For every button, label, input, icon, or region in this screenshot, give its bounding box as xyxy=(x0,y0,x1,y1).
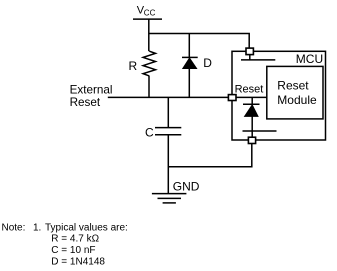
MCU box xyxy=(232,51,326,140)
svg-text:Module: Module xyxy=(277,93,317,107)
wire Vcc stem down to resistor top xyxy=(148,19,150,51)
svg-text:External: External xyxy=(70,84,113,97)
pin square GND (bottom of MCU) xyxy=(248,137,255,143)
wire top rail from resistor branch to MCU Vcc pin xyxy=(149,34,249,49)
note text xyxy=(2,222,128,267)
pin square Reset (left of MCU) xyxy=(228,95,236,101)
wire node A down to capacitor top xyxy=(167,97,169,127)
wire ground rail to MCU GND pin xyxy=(168,144,252,167)
wire MCU reset pin to Reset Module xyxy=(236,96,267,98)
capacitor C top plate xyxy=(155,127,181,129)
pin square Vcc (top of MCU) xyxy=(246,48,253,55)
svg-text:R = 4.7 kΩ: R = 4.7 kΩ xyxy=(51,234,99,245)
internal diode cathode bar xyxy=(243,103,260,105)
internal diode triangle xyxy=(245,105,258,117)
svg-text:Note:: Note: xyxy=(2,222,26,233)
svg-text:Typical values are:: Typical values are: xyxy=(45,222,128,233)
label Vcc xyxy=(137,4,156,17)
svg-text:MCU: MCU xyxy=(296,52,323,66)
svg-text:GND: GND xyxy=(173,180,200,194)
svg-text:D = 1N4148: D = 1N4148 xyxy=(51,256,105,267)
diode D cathode bar xyxy=(182,56,198,58)
wire diode D anode to node A xyxy=(188,68,190,98)
wire rail to diode D cathode xyxy=(188,34,190,58)
svg-text:Reset: Reset xyxy=(235,84,264,96)
svg-text:CC: CC xyxy=(144,9,156,18)
internal Vcc rail bar xyxy=(241,59,275,61)
svg-text:Reset: Reset xyxy=(277,79,309,93)
svg-text:Reset: Reset xyxy=(70,96,101,109)
wire External Reset node A to MCU reset pin xyxy=(108,96,229,98)
ground symbol xyxy=(152,194,187,203)
label Reset Module xyxy=(277,79,317,107)
svg-text:1.: 1. xyxy=(33,222,41,233)
svg-text:R: R xyxy=(129,59,138,73)
wire resistor bottom to node A xyxy=(148,76,150,98)
capacitor C bottom plate xyxy=(155,134,181,136)
svg-text:D: D xyxy=(203,56,212,70)
resistor R zigzag xyxy=(143,51,155,76)
Reset Module box xyxy=(267,66,323,119)
wire internal diode anode to GND pin xyxy=(251,116,253,137)
diode D triangle xyxy=(183,58,197,69)
internal Vcc rail stub xyxy=(249,55,251,60)
wire reset node down to internal diode cathode xyxy=(251,97,253,104)
svg-text:C = 10 nF: C = 10 nF xyxy=(51,245,95,256)
svg-text:C: C xyxy=(145,125,154,139)
label External Reset xyxy=(70,84,113,109)
internal GND rail bar xyxy=(243,130,277,132)
power Vcc rail bar xyxy=(133,18,162,20)
wire capacitor bottom down to ground xyxy=(167,135,169,194)
